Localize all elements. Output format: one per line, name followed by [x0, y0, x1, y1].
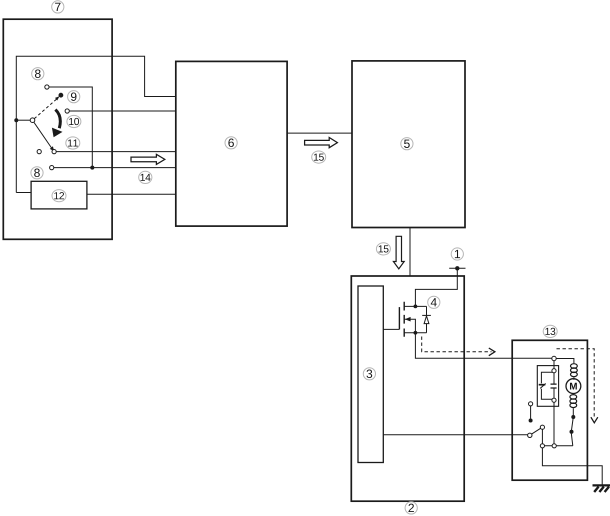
- mosfet Q4 gate lead: [383, 328, 399, 330]
- contact 11 circle: [37, 150, 41, 154]
- dashed flow arrowhead down: [591, 417, 598, 423]
- contact 8b circle: [50, 166, 54, 170]
- wire contact 8a to junction: [49, 87, 92, 168]
- ground slashes: [594, 487, 609, 492]
- box relay/condenser inner in U13: [537, 366, 558, 407]
- mosfet body arrowhead: [405, 317, 411, 322]
- wire contact 8b to U6: [54, 167, 176, 169]
- label 12: [52, 190, 66, 202]
- source node dot: [414, 331, 418, 335]
- left post circle: [529, 402, 533, 406]
- label 13: [543, 325, 557, 337]
- body diode vertical: [426, 306, 428, 332]
- bus circle left: [540, 444, 544, 448]
- label 4: [428, 296, 440, 308]
- dashed flow arrow to U13: [422, 337, 492, 352]
- block arrow 14: [131, 154, 165, 164]
- motor letter M: [570, 383, 577, 390]
- inductor coil upper: [571, 364, 578, 369]
- wire motor to thermal contact: [572, 408, 574, 417]
- label 1: [451, 248, 463, 260]
- U13 top contact circle: [552, 356, 556, 360]
- thermal contact slant: [571, 417, 573, 446]
- node 1 tick: [449, 267, 465, 269]
- node junction dot on net A: [14, 118, 18, 122]
- thermal dot lower: [570, 430, 574, 434]
- U13 blade tip circle: [540, 425, 544, 429]
- box U5: [352, 61, 465, 228]
- wire net A to U12: [16, 192, 31, 194]
- breaker contact mark: [539, 384, 546, 386]
- body diode triangle: [424, 316, 429, 324]
- box U12: [31, 181, 87, 209]
- contact 9 dot: [59, 93, 64, 98]
- node junction dot net 8: [90, 166, 94, 170]
- node 1 dot: [455, 266, 459, 270]
- wire U5 to U2: [409, 228, 411, 277]
- box U3 inner: [358, 286, 383, 463]
- label 10: [67, 115, 81, 127]
- U13 pivot circle: [528, 433, 532, 437]
- box U13 (motor unit): [512, 340, 587, 480]
- label 8: [32, 68, 44, 80]
- left post dot: [529, 419, 533, 423]
- wire U6 to U5: [287, 132, 352, 134]
- wire blade 11 to U6: [56, 151, 176, 153]
- relay bottom circle: [552, 398, 556, 402]
- breaker branch: [541, 372, 554, 399]
- label 2: [405, 502, 417, 514]
- relay top circle: [552, 369, 556, 373]
- left contact post: [530, 406, 532, 419]
- label 14: [139, 171, 152, 183]
- wire node 1 to mosfet drain: [415, 268, 457, 306]
- dashed blade arrowhead: [55, 96, 60, 100]
- box U6: [176, 61, 287, 226]
- block arrow 15a: [305, 138, 338, 148]
- switch blade dashed (position 9): [34, 99, 56, 118]
- bus wire bottom of U13: [542, 445, 572, 447]
- label 5: [401, 138, 413, 150]
- label 6: [225, 137, 237, 149]
- label 3: [363, 368, 375, 380]
- inductor coil lower: [570, 395, 577, 400]
- wire U12 to U6: [87, 193, 176, 195]
- blade tip arrowhead: [50, 146, 54, 151]
- U13 switch blade: [532, 428, 541, 434]
- box U2 outer (controller): [351, 276, 464, 501]
- wire coil to motor: [573, 377, 575, 380]
- wire mosfet source to U13 contact: [415, 333, 554, 358]
- relay vertical line x=554: [553, 359, 555, 446]
- label 15: [376, 243, 390, 255]
- blade tip to bus: [541, 429, 543, 446]
- label 9: [68, 91, 80, 103]
- wire U13 top contact to coil: [556, 359, 574, 364]
- mosfet Q4 channel segments: [403, 302, 405, 337]
- wire net A from pivot to U6: [16, 56, 176, 192]
- drain node dot: [414, 305, 418, 309]
- wire U3 to U13 pivot: [383, 434, 530, 436]
- contact 8a circle: [45, 85, 49, 89]
- dashed flow arrowhead: [489, 348, 495, 356]
- bus circle mid: [552, 444, 556, 448]
- wire pivot link: [16, 119, 30, 121]
- blade tip circle: [52, 150, 56, 154]
- capacitor plates: [551, 384, 557, 388]
- label 15: [312, 151, 326, 163]
- wire contact 10 to U6: [69, 110, 176, 112]
- box U7 outer (switch assembly): [3, 19, 112, 239]
- body diode cathode bar: [422, 314, 431, 316]
- label 8: [31, 167, 43, 179]
- pivot contact circle: [30, 118, 35, 123]
- wire bus to ground: [542, 448, 602, 485]
- mosfet Q4 drain lead: [404, 305, 426, 307]
- ground bar: [593, 484, 610, 486]
- switch blade solid (position 11): [34, 122, 53, 149]
- label 11: [66, 137, 80, 149]
- block arrow 15b down: [393, 236, 404, 269]
- mosfet Q4 gate bar: [398, 307, 400, 329]
- contact 10 circle: [65, 109, 69, 113]
- thermal dot upper: [571, 415, 575, 419]
- mosfet Q4 body lead with arrow: [404, 319, 415, 333]
- motor M circle: [566, 379, 581, 394]
- rotation arrowhead: [52, 128, 63, 138]
- dashed flow line U13 top: [557, 349, 595, 417]
- mosfet Q4 source lead: [404, 332, 426, 334]
- rotation arrow arc: [55, 110, 60, 129]
- label 7: [52, 1, 64, 13]
